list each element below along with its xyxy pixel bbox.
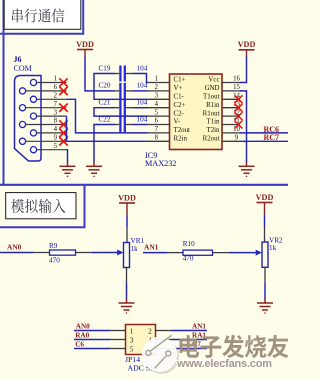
no-connect X on J6 pin 9 — [59, 137, 67, 145]
wire AN0 to R9 — [0, 252, 33, 254]
svg-text:470: 470 — [49, 256, 60, 264]
svg-text:AN0: AN0 — [76, 322, 90, 330]
R9 left lead — [33, 252, 50, 254]
watermark text 电子发烧友 — [180, 335, 289, 358]
op-amp IC9 MAX232 body — [170, 74, 223, 150]
J6 pin 5 circle — [30, 147, 36, 153]
svg-text:15: 15 — [233, 84, 240, 91]
svg-text:COM: COM — [14, 64, 32, 73]
potentiometer VR1 body — [124, 243, 130, 268]
J6 pin 7 circle — [19, 105, 25, 111]
svg-text:GND: GND — [205, 85, 220, 92]
capacitor C19 — [114, 66, 133, 82]
wire VDD4 to VR2 — [264, 215, 266, 227]
J6 pin 8 stub — [26, 124, 67, 126]
VR2 bottom lead — [264, 267, 266, 283]
wire VR1 to ground — [126, 283, 128, 299]
wire VDD2 to IC pin16 — [240, 57, 247, 83]
svg-text:VDD: VDD — [118, 193, 136, 202]
ground VR1 — [119, 299, 135, 314]
svg-text:R2out: R2out — [203, 136, 220, 143]
svg-text:RC7: RC7 — [264, 133, 280, 142]
R9 right lead — [76, 252, 93, 254]
J6 pin 9 circle — [19, 138, 25, 144]
ground VR2 — [257, 299, 273, 314]
J6 pin 6 stub — [26, 90, 67, 92]
IC9 pin 5 stub — [148, 115, 170, 117]
IC9 pin 2 stub — [148, 90, 170, 92]
resistor R9 — [50, 250, 76, 255]
svg-text:T1out: T1out — [203, 94, 220, 101]
wire C22 left to ground — [94, 125, 115, 163]
svg-text:T2in: T2in — [206, 127, 220, 134]
svg-text:RA0: RA0 — [75, 331, 89, 339]
J6 pin 4 circle — [30, 130, 36, 136]
svg-text:4: 4 — [54, 126, 58, 133]
svg-text:C20: C20 — [99, 82, 111, 90]
capacitor C20 — [114, 83, 133, 99]
IC9 pin 12 stub — [222, 115, 240, 117]
svg-text:1: 1 — [155, 76, 158, 83]
svg-text:V+: V+ — [174, 85, 183, 92]
svg-text:1: 1 — [130, 328, 134, 336]
wire VDD1 to C20 — [85, 57, 115, 91]
svg-text:8: 8 — [54, 118, 58, 125]
no-connect X on IC9 pin 13 — [235, 104, 243, 112]
svg-text:C1-: C1- — [174, 94, 185, 101]
section title notch top — [0, 0, 83, 34]
svg-text:7: 7 — [54, 101, 58, 108]
svg-text:3: 3 — [54, 109, 58, 116]
title box analog-input — [6, 193, 76, 219]
wire IC pin15 to ground — [240, 91, 247, 162]
J6 pin 3 stub — [37, 115, 67, 117]
svg-text:4: 4 — [155, 101, 159, 108]
svg-text:3: 3 — [155, 93, 159, 100]
svg-text:6: 6 — [54, 84, 58, 91]
J6 pin 5 stub — [37, 149, 67, 151]
svg-text:16: 16 — [233, 76, 240, 83]
svg-text:VDD: VDD — [256, 193, 274, 202]
svg-text:R1out: R1out — [203, 110, 220, 117]
wire R10 to VR2 wiper — [229, 252, 257, 254]
title box serial-communication — [4, 0, 81, 29]
svg-text:5: 5 — [54, 143, 58, 150]
capacitor C21 — [114, 100, 133, 116]
wire C19 right to IC pin1 — [133, 74, 148, 83]
section title notch bottom — [0, 184, 85, 227]
IC9 pin 7 stub — [148, 132, 170, 134]
wire VDD3 to VR1 — [126, 215, 128, 227]
R10 left lead — [167, 252, 183, 254]
no-connect X on J6 pin 6 — [59, 87, 67, 95]
JP14 pin lead right 1 — [156, 330, 172, 332]
wire R9 to VR1 wiper — [92, 252, 118, 254]
J6 pin 4 stub — [37, 132, 67, 134]
watermark logo — [146, 335, 172, 368]
ground J6 pin5 — [60, 162, 76, 177]
svg-text:C6: C6 — [75, 340, 84, 348]
svg-text:www.elecfans.com: www.elecfans.com — [176, 358, 272, 370]
IC9 pin 9 stub — [222, 140, 240, 142]
svg-text:9: 9 — [235, 135, 239, 142]
no-connect X on J6 pin 7 — [59, 104, 67, 112]
title text 模拟输入 — [11, 199, 24, 213]
no-connect X on J6 pin 1 — [59, 78, 67, 86]
watermark circle — [142, 337, 177, 372]
connector J6 outline — [15, 76, 42, 162]
svg-text:470: 470 — [183, 255, 194, 263]
J6 pin 2 circle — [30, 96, 36, 102]
JP14 left wire 1 — [74, 330, 110, 332]
svg-text:5: 5 — [155, 109, 159, 116]
svg-text:8: 8 — [155, 135, 159, 142]
J6 pin 3 circle — [30, 113, 36, 119]
wire J6 pin3 to IC pin8 — [67, 116, 148, 141]
wire C21 left to IC pin5 — [94, 108, 148, 116]
JP14 right wire 2 — [171, 339, 207, 341]
ground C22 — [86, 162, 102, 177]
VR1 bottom lead — [126, 268, 128, 284]
wire J6 pin2 to IC pin7 — [67, 99, 148, 133]
no-connect X on IC9 pin 11 — [235, 121, 243, 129]
IC9 pin 13 stub — [222, 107, 240, 109]
svg-text:1k: 1k — [269, 244, 277, 252]
svg-text:C2-: C2- — [174, 110, 185, 117]
svg-text:3: 3 — [130, 337, 134, 345]
svg-text:R9: R9 — [49, 242, 58, 250]
VR1 wiper arrow — [117, 250, 123, 256]
JP14 right wire 1 — [171, 330, 207, 332]
J6 pin 1 stub — [37, 82, 67, 84]
JP14 left wire 3 — [74, 348, 110, 350]
svg-text:T1in: T1in — [206, 119, 220, 126]
svg-text:Vcc: Vcc — [208, 77, 219, 84]
svg-text:R10: R10 — [183, 240, 195, 248]
IC9 pin 4 stub — [148, 107, 170, 109]
svg-text:1: 1 — [54, 76, 57, 83]
svg-text:V-: V- — [174, 119, 181, 126]
wire C21 right to IC pin4 — [133, 107, 148, 109]
wire C19 left to IC pin3 — [94, 74, 148, 100]
ground IC9 — [239, 162, 255, 177]
no-connect X on J6 pin 8 — [59, 120, 67, 128]
svg-text:R1in: R1in — [206, 102, 220, 109]
IC9 pin 15 stub — [222, 90, 240, 92]
IC9 pin 11 stub — [222, 124, 240, 126]
JP14 pin lead left 1 — [110, 330, 126, 332]
JP14 right wire 3 — [171, 348, 207, 350]
wire IC pin9 RC7 — [240, 140, 288, 142]
svg-text:VDD: VDD — [76, 40, 94, 49]
svg-text:J6: J6 — [14, 55, 22, 64]
watermark circle shadow — [144, 339, 179, 374]
J6 pin 6 circle — [19, 88, 25, 94]
no-connect X on IC9 pin 12 — [235, 112, 243, 120]
section divider horizontal — [0, 184, 288, 186]
connector JP14 body — [126, 325, 156, 355]
svg-text:AN0: AN0 — [7, 242, 22, 251]
wire VR2 to ground — [264, 283, 266, 299]
no-connect X on J6 pin 4 — [59, 129, 67, 137]
potentiometer VR2 body — [262, 242, 268, 267]
JP14 left wire 2 — [74, 339, 110, 341]
svg-text:2: 2 — [54, 93, 58, 100]
svg-text:T2out: T2out — [174, 127, 191, 134]
VR2 wiper arrow — [256, 250, 262, 256]
VR2 top lead — [264, 227, 266, 243]
wire C20 right to IC pin2 — [133, 90, 148, 92]
svg-text:1k: 1k — [131, 245, 139, 253]
wire J6 pin5 to ground — [67, 150, 68, 162]
svg-text:R2in: R2in — [174, 136, 188, 143]
JP14 pin lead left 2 — [110, 339, 126, 341]
svg-text:C1+: C1+ — [174, 77, 186, 84]
IC9 pin 14 stub — [222, 98, 240, 100]
svg-text:C2+: C2+ — [174, 102, 186, 109]
capacitor C22 — [114, 117, 133, 133]
R10 right lead — [213, 252, 230, 254]
IC9 pin 1 stub — [148, 82, 170, 84]
svg-text:5: 5 — [130, 346, 134, 354]
VR1 top lead — [126, 227, 128, 243]
J6 pin 2 stub — [37, 98, 67, 100]
J6 pin 9 stub — [26, 140, 67, 142]
JP14 pin lead left 3 — [110, 348, 126, 350]
J6 pin 7 stub — [26, 107, 67, 109]
JP14 pin lead right 3 — [156, 348, 172, 350]
svg-text:C19: C19 — [99, 64, 111, 72]
no-connect X on IC9 pin 14 — [235, 95, 243, 103]
svg-text:AN1: AN1 — [192, 322, 206, 330]
resistor R10 — [183, 250, 213, 255]
svg-text:2: 2 — [155, 84, 159, 91]
wire C22 right to IC pin6 — [133, 124, 148, 126]
IC9 pin 3 stub — [148, 98, 170, 100]
svg-text:104: 104 — [137, 64, 148, 72]
IC9 pin 8 stub — [148, 140, 170, 142]
JP14 pin lead right 2 — [156, 339, 172, 341]
svg-text:AN1: AN1 — [144, 243, 159, 252]
IC9 pin 16 stub — [222, 82, 240, 84]
IC9 pin 6 stub — [148, 124, 170, 126]
wire AN1 to R10 — [143, 252, 167, 254]
svg-text:7: 7 — [155, 126, 159, 133]
wire IC pin10 RC6 — [240, 132, 288, 134]
svg-text:2: 2 — [148, 328, 152, 336]
IC9 pin 10 stub — [222, 132, 240, 134]
J6 pin 1 circle — [30, 79, 36, 85]
J6 pin 8 circle — [19, 121, 25, 127]
section border left vertical — [3, 0, 5, 185]
svg-text:6: 6 — [155, 118, 159, 125]
svg-text:9: 9 — [54, 135, 58, 142]
svg-text:VDD: VDD — [238, 40, 256, 49]
svg-text:MAX232: MAX232 — [145, 159, 176, 168]
title text 串行通信 — [12, 9, 23, 23]
